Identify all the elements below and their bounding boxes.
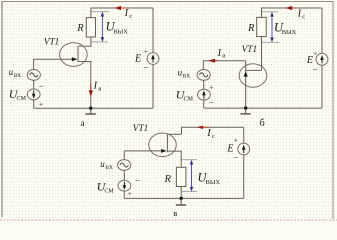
wire: U_sm to bottom rail (v) (123, 191, 125, 198)
source u_vx circle (v) (118, 160, 131, 171)
current arrow I_c (b) (285, 6, 297, 10)
label I_c (a) (124, 8, 133, 20)
E arrow (a) (151, 54, 155, 62)
sine mark in u_vx (v) (120, 163, 128, 167)
svg-text:VT1: VT1 (44, 38, 60, 48)
junction node (v) (180, 197, 183, 200)
svg-text:СМ: СМ (17, 96, 27, 102)
wire: drain link (v) (167, 133, 181, 135)
ground (a) (86, 108, 96, 114)
wire: input left column (a) (33, 59, 35, 69)
label U_vyh (a) (106, 20, 129, 36)
svg-text:+: + (144, 47, 148, 56)
svg-text:СМ: СМ (184, 96, 194, 102)
wire: R bottom to drain (b) (261, 37, 263, 71)
wire: right column with E (a) (152, 8, 154, 53)
transistor VT1 body (b) (239, 64, 267, 87)
svg-text:E: E (226, 144, 233, 155)
label I_c (b) (297, 8, 306, 20)
svg-text:ВЫХ: ВЫХ (113, 28, 128, 35)
svg-text:ВЫХ: ВЫХ (282, 29, 297, 36)
svg-text:+: + (128, 189, 132, 198)
svg-text:+: + (39, 99, 43, 108)
label U_vyh (v) (198, 170, 221, 186)
wire: top rail a (91, 8, 153, 18)
source U_sm circle (b) (198, 89, 211, 100)
transistor VT1 gate arrowhead (a) (72, 57, 78, 61)
label I_i (b) (217, 48, 227, 60)
wire: right column with E (b) (321, 8, 323, 53)
wire: gate from input (v) (124, 150, 165, 152)
svg-text:+: + (209, 83, 213, 92)
wire: between sources (a) (33, 80, 35, 89)
wire: input left column (v) (123, 151, 125, 160)
svg-text:VT1: VT1 (133, 124, 149, 134)
svg-text:ВХ: ВХ (14, 73, 22, 79)
wire: top rail v (182, 127, 244, 134)
current arrow I_i (b) (208, 59, 218, 63)
wire: E to bottom rail (a) (152, 64, 154, 108)
junction node (b) (244, 106, 247, 109)
U_sm arrow (b) (202, 90, 206, 98)
label U_vyh (b) (274, 21, 297, 37)
label U_sm (b) (176, 87, 194, 102)
voltage arrow U_vyh (b) (262, 12, 280, 43)
label I_i (a) (93, 81, 103, 93)
junction node (a) (89, 107, 92, 110)
U_sm arrow (a) (32, 91, 36, 99)
svg-text:б: б (260, 118, 265, 129)
wire: source to R (v) (167, 151, 181, 167)
wire: U_sm to bottom rail (a) (33, 100, 35, 108)
transistor VT1 channel (a) (77, 46, 79, 62)
label u_vx (v) (100, 159, 113, 171)
resistor R (a) (86, 18, 95, 37)
svg-text:R: R (247, 23, 255, 34)
sine mark in u_vx (b) (200, 73, 208, 77)
svg-text:VT1: VT1 (242, 45, 258, 55)
svg-text:I: I (217, 48, 222, 59)
wire: R bottom to drain (a) (78, 37, 91, 46)
svg-text:+: + (313, 49, 317, 58)
svg-text:ВХ: ВХ (183, 73, 191, 79)
wire: bottom rail (v) (124, 197, 243, 199)
wire: bottom rail (b) (204, 107, 322, 109)
svg-text:E: E (134, 53, 141, 64)
label U_sm (a) (9, 87, 27, 102)
svg-text:с: с (129, 13, 132, 20)
wire: bottom rail (a) (34, 107, 153, 109)
transistor VT1 gate arrowhead (b) (244, 71, 248, 77)
svg-text:в: в (173, 208, 177, 218)
E arrow (v) (242, 145, 246, 153)
wire: source to down-lead (a) (78, 62, 91, 109)
resistor R (b) (257, 17, 267, 36)
label I_c (v) (206, 128, 215, 140)
wire: E to bottom rail (v) (243, 155, 245, 199)
svg-text:I: I (124, 8, 129, 19)
current arrow I_c (a) (114, 6, 128, 10)
source U_sm circle (a) (27, 89, 40, 100)
wire: input left column (b) (202, 61, 204, 70)
wire: right column with E (v) (243, 127, 245, 143)
current arrow I_c (v) (197, 126, 209, 130)
resistor R (v) (176, 167, 186, 186)
transistor VT1 gate arrowhead (v) (161, 149, 167, 153)
label U_sm (v) (97, 179, 115, 194)
transistor VT1 body (a) (60, 43, 88, 67)
svg-text:E: E (306, 55, 313, 66)
label u_vx (a) (9, 67, 22, 79)
EMF source E circle (a) (147, 53, 159, 65)
svg-text:с: с (212, 133, 215, 140)
svg-text:с: с (302, 13, 305, 20)
current arrow I_i (a) (89, 84, 93, 97)
wire: U_sm to bottom rail (b) (203, 100, 205, 108)
EMF source E circle (b) (316, 53, 328, 65)
source u_vx circle (a) (27, 70, 40, 81)
svg-text:I: I (206, 128, 211, 139)
svg-text:ВХ: ВХ (105, 165, 113, 171)
svg-text:ВЫХ: ВЫХ (206, 179, 221, 186)
wire: between sources (b) (203, 80, 205, 89)
source u_vx circle (b) (197, 70, 210, 81)
transistor VT1 channel (b) (246, 69, 262, 71)
ground (b) (240, 108, 250, 114)
svg-text:а: а (81, 118, 85, 128)
svg-text:+: + (234, 135, 238, 144)
U_sm arrow (v) (123, 182, 127, 190)
wire: R bottom to rail (v) (180, 187, 182, 199)
transistor VT1 channel (v) (166, 134, 168, 152)
EMF source E circle (v) (238, 143, 250, 155)
label u_vx (b) (178, 68, 191, 80)
wire: E to bottom rail (b) (321, 65, 323, 108)
wire: input from u_vx (b) (203, 60, 245, 62)
voltage arrow U_vyh (v) (182, 160, 197, 192)
transistor VT1 body (v) (149, 133, 177, 157)
wire: between sources (v) (123, 170, 125, 180)
svg-text:R: R (76, 23, 84, 34)
svg-text:I: I (297, 8, 302, 19)
sine mark in u_vx (a) (30, 73, 38, 77)
svg-text:СМ: СМ (104, 188, 114, 194)
svg-text:R: R (164, 174, 172, 185)
ground (v) (176, 198, 186, 205)
voltage arrow U_vyh (a) (91, 12, 109, 42)
svg-text:I: I (93, 81, 98, 92)
E arrow (b) (320, 55, 324, 63)
wire: gate from input (a) (34, 58, 76, 60)
wire: top rail b (262, 8, 323, 17)
wire: source/gate column (b) (245, 61, 247, 108)
source U_sm circle (v) (118, 180, 131, 191)
